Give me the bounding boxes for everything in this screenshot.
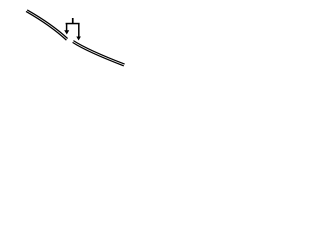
right force arrowhead: [76, 37, 81, 41]
lower rope segment (double line), upper stroke: [73, 41, 124, 64]
left force arrow shaft: [66, 24, 68, 32]
bracket stem: [72, 18, 74, 24]
left force arrowhead: [64, 30, 69, 34]
bracket horizontal bar: [66, 23, 80, 25]
background: [0, 0, 150, 76]
lower rope segment (double line), lower stroke: [73, 42, 124, 65]
upper rope segment (double line), upper stroke: [27, 10, 67, 39]
upper rope segment (double line), lower stroke: [26, 11, 66, 40]
right force arrow shaft: [78, 24, 80, 38]
